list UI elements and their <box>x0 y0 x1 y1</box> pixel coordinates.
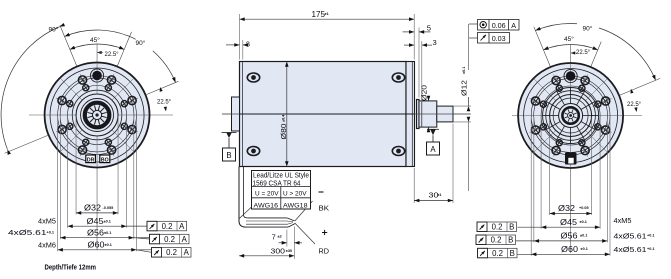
left face inner line <box>242 62 244 167</box>
svg-text:0.2: 0.2 <box>492 249 503 258</box>
svg-text:0.2: 0.2 <box>166 248 177 257</box>
svg-text:90°: 90° <box>583 25 593 33</box>
svg-text:+0.1: +0.1 <box>647 247 655 251</box>
dim O60 (left) <box>58 249 152 251</box>
svg-text:Ø56: Ø56 <box>87 229 104 238</box>
radial extension line 22.5deg (right view) <box>620 78 661 95</box>
dim 300 lead length <box>293 247 295 259</box>
dim O80 body diameter <box>286 63 288 165</box>
runout frame 0.2 B (for O60) <box>478 248 518 257</box>
centerline horizontal (right view) <box>512 115 642 117</box>
datum A flag <box>427 128 439 130</box>
label minus / BK <box>319 191 324 193</box>
dim 30 shaft length <box>413 168 415 203</box>
nameplate boxes at bottom of flange <box>86 155 96 163</box>
wire leader BK <box>295 201 313 221</box>
svg-text:4xØ5.61: 4xØ5.61 <box>8 228 47 237</box>
angular dim 90 deg (right view arc) <box>535 23 577 30</box>
svg-text:B: B <box>508 236 513 245</box>
svg-text:3: 3 <box>246 40 250 49</box>
svg-text:Ø32: Ø32 <box>84 204 101 213</box>
svg-text:A: A <box>182 235 188 244</box>
svg-text:4xØ5.61: 4xØ5.61 <box>614 245 647 254</box>
svg-text:Ø32: Ø32 <box>558 204 575 213</box>
runout frame 0.2 A (for O45) <box>147 221 187 231</box>
svg-text:90°: 90° <box>136 39 146 47</box>
extension lines below right view <box>549 117 551 215</box>
svg-text:Ø45: Ø45 <box>560 218 578 227</box>
dim O45 (left) <box>68 225 147 227</box>
dim O56 (left) <box>60 237 149 239</box>
svg-text:22.5°: 22.5° <box>105 52 120 58</box>
angular dim 22.5 deg (top, right view) <box>571 51 576 54</box>
rear connector block at bottom <box>565 153 577 165</box>
lead spec table <box>252 171 311 210</box>
angular dim 90 deg (left arc) <box>1 27 59 150</box>
dim 7 lead strip length <box>286 230 288 247</box>
svg-text:±0.4: ±0.4 <box>281 114 285 122</box>
svg-text:A: A <box>179 222 185 231</box>
svg-text:22.5°: 22.5° <box>576 50 591 56</box>
dim O32 (left) <box>76 212 118 214</box>
label plus / RD <box>322 232 327 234</box>
svg-text:BK: BK <box>319 204 330 213</box>
svg-text:Ø60: Ø60 <box>88 241 106 250</box>
svg-text:Ø60: Ø60 <box>561 245 579 254</box>
svg-text:1569 CSA TR 64: 1569 CSA TR 64 <box>253 180 301 187</box>
svg-text:A: A <box>184 248 190 257</box>
runout frame 0.2 A (for O60) <box>152 248 192 258</box>
svg-text:45°: 45° <box>90 36 100 44</box>
svg-text:5: 5 <box>427 23 431 32</box>
centerline vertical (left view) <box>96 44 98 250</box>
svg-text:0.2: 0.2 <box>162 222 173 231</box>
body centerline <box>222 113 471 115</box>
dim 3 (right) <box>421 41 423 102</box>
cable bundle <box>247 217 287 219</box>
svg-text:A: A <box>430 145 436 154</box>
dim O20 hub <box>428 98 430 101</box>
angular dim 22.5 deg (side, right view) <box>630 89 633 94</box>
cable exit channel (outer) <box>239 167 246 228</box>
svg-text:±0.1: ±0.1 <box>104 231 111 235</box>
svg-text:±0.1: ±0.1 <box>104 219 111 223</box>
radial extension line 112.5deg (right view) <box>534 27 550 67</box>
svg-text:+0.05: +0.05 <box>579 206 589 210</box>
radial extension line 202.5deg <box>5 135 48 153</box>
front hub O20 <box>419 101 437 127</box>
angular dim 45 deg <box>70 44 124 49</box>
svg-text:3: 3 <box>433 38 437 47</box>
svg-text:Ø20: Ø20 <box>419 85 428 101</box>
4 cover screws <box>247 73 259 82</box>
svg-text:0.2: 0.2 <box>164 235 175 244</box>
dim O60 (right) <box>518 253 611 255</box>
svg-text:Lead/Litze UL Style: Lead/Litze UL Style <box>253 173 309 180</box>
svg-text:Ø12: Ø12 <box>460 80 469 96</box>
side view: motor body <box>240 62 407 167</box>
svg-text:±1: ±1 <box>437 193 441 197</box>
front collar <box>417 100 420 129</box>
right end cap <box>406 62 415 167</box>
svg-text:0.2: 0.2 <box>491 236 502 245</box>
dim 175 overall length <box>239 14 241 60</box>
svg-text:AWG18: AWG18 <box>283 203 308 210</box>
shaft extension lines <box>453 105 471 107</box>
svg-text:DR: DR <box>87 158 95 164</box>
dim O45 (right) <box>518 226 601 228</box>
cable taper nose <box>287 218 295 221</box>
svg-text:22.5°: 22.5° <box>157 100 172 106</box>
svg-text:4xM5: 4xM5 <box>614 216 632 225</box>
svg-text:300: 300 <box>271 247 286 256</box>
wire leader RD <box>295 223 315 244</box>
radial extension line 112.5deg <box>60 25 77 66</box>
svg-text:7: 7 <box>272 232 276 241</box>
svg-text:B: B <box>226 151 231 160</box>
angular dim 90 deg (right arc) <box>65 30 136 39</box>
extension lines below left view <box>75 116 77 214</box>
concentricity frame 0.06 A <box>469 23 478 25</box>
dim O12 shaft + leader to frames <box>468 24 470 70</box>
runout frame 0.03 <box>469 37 478 39</box>
centerline through shaft <box>414 113 471 115</box>
svg-text:+0.1: +0.1 <box>647 234 655 238</box>
svg-text:0.03: 0.03 <box>492 34 506 43</box>
centerline horizontal (left view) <box>29 114 173 116</box>
svg-text:-0.055: -0.055 <box>103 206 114 210</box>
svg-text:BO: BO <box>101 158 109 164</box>
svg-text:0.06: 0.06 <box>492 21 506 30</box>
dim O32 (right) <box>550 213 592 215</box>
radial extension line 67.5deg <box>117 32 131 66</box>
svg-text:±2: ±2 <box>278 235 282 239</box>
angular dim 22.5 deg (top) <box>97 51 102 54</box>
svg-text:+0.1: +0.1 <box>47 231 55 235</box>
datum B flag <box>222 132 237 134</box>
svg-text:4xM6: 4xM6 <box>38 240 56 249</box>
svg-text:±30: ±30 <box>286 249 292 253</box>
svg-text:±0.1: ±0.1 <box>581 247 588 251</box>
rear center wheel <box>543 88 599 144</box>
center spline / shaft bore <box>81 99 114 132</box>
runout frame 0.2 B (for O45) <box>477 222 517 232</box>
radial extension line 22.5deg <box>146 81 178 94</box>
runout frame 0.2 B (for O56) <box>476 235 516 245</box>
shaft O12 <box>437 106 453 122</box>
svg-text:45°: 45° <box>564 35 574 43</box>
svg-text:±0.1: ±0.1 <box>580 220 587 224</box>
angular dim 22.5 deg (right) <box>160 87 163 92</box>
cable exit channel (inner) <box>243 167 247 218</box>
svg-text:B: B <box>509 223 514 232</box>
svg-text:Ø45: Ø45 <box>87 217 105 226</box>
svg-text:Ø56: Ø56 <box>561 232 578 241</box>
svg-text:U = 20V: U = 20V <box>255 190 279 197</box>
svg-text:B: B <box>510 249 515 258</box>
svg-text:AWG16: AWG16 <box>254 203 279 210</box>
svg-text:RD: RD <box>319 247 330 256</box>
centerline vertical (right view) <box>570 45 572 253</box>
angular dim 45 deg (right view) <box>543 44 597 49</box>
svg-text:±0.1: ±0.1 <box>462 67 466 74</box>
svg-text:22.5°: 22.5° <box>627 102 642 108</box>
svg-text:4xØ5.61: 4xØ5.61 <box>614 232 647 241</box>
radial extension line 67.5deg (right view) <box>591 42 601 67</box>
rear hub (left) <box>232 97 240 131</box>
svg-text:±0.1: ±0.1 <box>580 234 587 238</box>
svg-text:U > 20V: U > 20V <box>283 190 307 197</box>
svg-text:0.2: 0.2 <box>492 223 503 232</box>
svg-text:Ø80: Ø80 <box>279 124 288 140</box>
svg-text:90°: 90° <box>49 26 59 34</box>
svg-text:±0.1: ±0.1 <box>105 243 112 247</box>
svg-text:±1: ±1 <box>325 12 329 16</box>
motor flange circles with bolt holes <box>45 63 150 168</box>
svg-text:4xM5: 4xM5 <box>38 216 56 225</box>
dim O56 (right) <box>516 240 607 242</box>
dim 5 (right) <box>418 28 420 98</box>
svg-text:Depth/Tiefe 12mm: Depth/Tiefe 12mm <box>45 263 97 272</box>
dim 3 (left) <box>242 40 244 60</box>
leader from table to cable <box>239 207 251 219</box>
runout frame 0.2 A (for O56) <box>150 234 190 244</box>
svg-text:A: A <box>511 21 516 30</box>
